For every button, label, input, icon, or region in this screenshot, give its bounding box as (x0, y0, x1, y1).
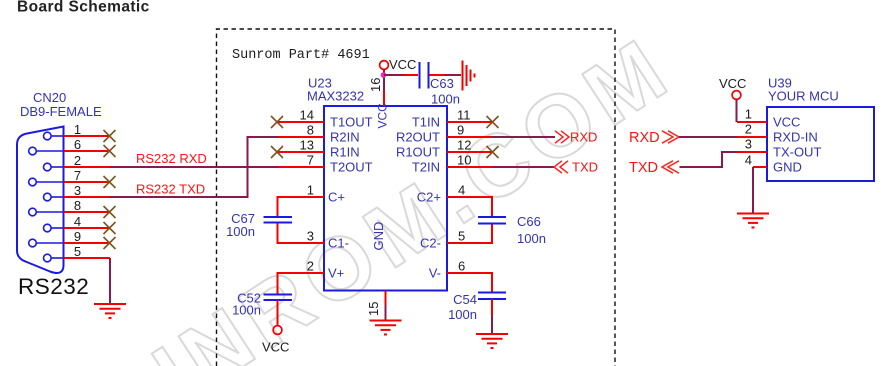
svg-text:DB9-FEMALE: DB9-FEMALE (20, 104, 102, 119)
capacitor C52 plates (264, 295, 293, 301)
pin 4 (753, 166, 767, 168)
svg-text:100n: 100n (232, 303, 261, 318)
svg-text:8: 8 (74, 198, 81, 213)
svg-text:16: 16 (368, 78, 383, 92)
svg-text:4: 4 (74, 214, 81, 229)
U23 pin numbers left (300, 108, 314, 274)
svg-text:1: 1 (307, 183, 314, 198)
svg-text:TXD: TXD (572, 160, 598, 175)
svg-text:T1IN: T1IN (412, 115, 440, 130)
svg-text:RS232: RS232 (18, 274, 89, 299)
port <<TXD (554, 161, 568, 173)
svg-text:100n: 100n (448, 307, 477, 322)
no-connect X on U23 pin 14 (271, 116, 283, 128)
pin 8 (278, 136, 324, 138)
U39 body (767, 107, 874, 181)
wire U23 pin15 to ground (385, 305, 387, 320)
svg-text:100n: 100n (226, 224, 255, 239)
svg-text:14: 14 (300, 108, 314, 123)
pin 1 circle (44, 132, 52, 140)
pin 16 stub (383, 91, 385, 106)
svg-text:C63: C63 (430, 76, 454, 91)
svg-text:C66: C66 (517, 214, 541, 229)
no-connect X on CN20 pin 4 (104, 222, 116, 234)
wire VCC circle down to pin16 (383, 70, 385, 92)
svg-text:VCC: VCC (262, 340, 289, 355)
pin 5 circle (44, 254, 52, 262)
svg-text:100n: 100n (431, 92, 460, 107)
pin 10 (447, 166, 492, 168)
wire VCC to U39 pin1 (736, 99, 738, 122)
svg-text:100n: 100n (517, 231, 546, 246)
pin 4 circle (44, 224, 52, 232)
pin 12 (447, 151, 492, 153)
svg-text:TX-OUT: TX-OUT (773, 145, 821, 160)
pin 5 + C66 bottom lead (447, 224, 492, 244)
pin 9 stub (64, 242, 111, 244)
svg-text:C54: C54 (453, 292, 477, 307)
wire DB9 pin5 to ground (109, 258, 111, 304)
svg-text:9: 9 (74, 229, 81, 244)
svg-text:T2OUT: T2OUT (330, 160, 373, 175)
svg-text:13: 13 (300, 138, 314, 153)
pin 2 (737, 136, 767, 138)
pin 3 + C67 bottom lead (278, 223, 325, 243)
svg-text:RS232 TXD: RS232 TXD (136, 182, 205, 197)
svg-text:R1IN: R1IN (330, 145, 360, 160)
U23 pin numbers right (457, 108, 471, 274)
svg-text:V-: V- (429, 266, 441, 281)
svg-text:12: 12 (457, 138, 471, 153)
U39 pin names (773, 115, 821, 175)
svg-text:4: 4 (458, 183, 465, 198)
no-connect X on CN20 pin 8 (104, 206, 116, 218)
pin 1 stub (64, 135, 111, 137)
wire RS232 RXD: DB9 pin2 to U23 pin7 (110, 166, 278, 168)
U23 pin names right (396, 115, 441, 281)
no-connect X on CN20 pin 1 (104, 130, 116, 142)
svg-text:C1-: C1- (328, 236, 349, 251)
wire RS232 TXD: DB9 pin3 up to U23 pin8 (110, 137, 278, 197)
capacitor C67 plates (264, 217, 293, 223)
pin 9 circle (29, 239, 37, 247)
pin 1 + C67 top lead (278, 197, 325, 216)
pin 6 + C54 lead (447, 273, 492, 292)
no-connect X on U23 pin 12 (487, 146, 499, 158)
pin 3 (737, 151, 767, 153)
svg-text:2: 2 (74, 153, 81, 168)
svg-text:1: 1 (74, 122, 81, 137)
ground under U39 pin4 (737, 214, 769, 228)
svg-text:C2-: C2- (420, 236, 441, 251)
pin 2 + C52 lead (278, 273, 325, 294)
pin 5 stub (64, 257, 111, 259)
capacitor C54 plates (478, 293, 506, 300)
U23 pins (red stubs) (278, 91, 493, 305)
svg-text:8: 8 (307, 123, 314, 138)
pin 9 (447, 136, 492, 138)
svg-text:R2OUT: R2OUT (396, 130, 440, 145)
svg-text:RXD-IN: RXD-IN (773, 130, 818, 145)
ground under DB9 pin5 (94, 304, 126, 318)
svg-text:VCC: VCC (773, 115, 800, 130)
wire U23 pin9 to RXD port (492, 136, 555, 138)
wire junction to C63 (384, 74, 403, 76)
wire TXD port to U39 pin3 (680, 152, 738, 167)
wire RXD port to U39 pin2 (679, 136, 737, 138)
pin 3 stub (64, 196, 111, 198)
pin 11 (447, 121, 492, 123)
wire U39 pin4 to ground (752, 167, 754, 213)
pin 3 circle (44, 193, 52, 201)
U23 pin names left (328, 115, 373, 281)
dashed module boundary box (217, 29, 616, 366)
ground under U23 pin15 (370, 321, 402, 335)
pin 7 (278, 166, 324, 168)
pin 6 circle (29, 147, 37, 155)
svg-text:RS232 RXD: RS232 RXD (136, 151, 207, 166)
pin 14 (278, 121, 324, 123)
svg-text:6: 6 (458, 259, 465, 274)
pin 13 (278, 151, 324, 153)
U39 pins red stubs (737, 122, 767, 167)
pin 2 circle (44, 163, 52, 171)
svg-text:R1OUT: R1OUT (396, 145, 440, 160)
rotated ground right of C63 (463, 61, 475, 91)
svg-text:T2IN: T2IN (412, 160, 440, 175)
pin 1 (737, 121, 767, 123)
U39 pin numbers (745, 107, 752, 168)
connector CN20 DB9 body outline (17, 127, 64, 274)
svg-text:Board Schematic: Board Schematic (17, 0, 150, 16)
svg-text:3: 3 (307, 229, 314, 244)
no-connect X on CN20 pin 6 (104, 145, 116, 157)
pin 15 stub (385, 291, 387, 306)
svg-text:3: 3 (745, 137, 752, 152)
svg-text:5: 5 (458, 229, 465, 244)
svg-text:3: 3 (74, 183, 81, 198)
svg-text:11: 11 (457, 108, 471, 123)
svg-text:7: 7 (307, 153, 314, 168)
watermark SUNROM.COM (47, 17, 689, 366)
svg-text:Sunrom Part# 4691: Sunrom Part# 4691 (232, 48, 370, 63)
svg-text:V+: V+ (328, 266, 344, 281)
wire C52 to VCC circle (277, 300, 279, 326)
port >>RXD (555, 131, 569, 143)
no-connect X on U23 pin 11 (487, 116, 499, 128)
junction dot (381, 72, 387, 78)
pin 8 stub (64, 211, 111, 213)
svg-text:YOUR MCU: YOUR MCU (768, 89, 839, 104)
svg-text:6: 6 (74, 137, 81, 152)
wire C63 to rotated ground (430, 74, 446, 76)
CN20 red pin stubs (64, 136, 111, 258)
svg-text:MAX3232: MAX3232 (307, 89, 364, 104)
wire U23 pin10 to TXD port (492, 166, 554, 168)
svg-text:9: 9 (457, 123, 464, 138)
svg-text:2: 2 (307, 259, 314, 274)
U23 chip body (324, 106, 447, 291)
pin 7 stub (64, 181, 111, 183)
svg-text:R2IN: R2IN (330, 130, 360, 145)
svg-text:10: 10 (457, 153, 471, 168)
pin 7 circle (29, 178, 37, 186)
svg-text:C+: C+ (328, 190, 345, 205)
svg-text:C2+: C2+ (417, 190, 441, 205)
pin 6 stub (64, 150, 111, 152)
wire C54 to ground (491, 299, 493, 315)
svg-text:GND: GND (371, 222, 386, 251)
pin 8 circle (29, 208, 37, 216)
capacitor C66 plates (478, 217, 506, 224)
CN20 pin circles and inner stubs (29, 132, 64, 262)
pin 2 stub (64, 166, 111, 168)
VCC power symbol below C52 (273, 326, 282, 335)
svg-text:7: 7 (74, 168, 81, 183)
svg-text:TXD: TXD (629, 160, 658, 176)
svg-text:2: 2 (745, 122, 752, 137)
svg-text:RXD: RXD (629, 130, 660, 146)
svg-text:CN20: CN20 (33, 90, 66, 105)
svg-text:VCC: VCC (389, 57, 416, 72)
svg-text:1: 1 (745, 107, 752, 122)
capacitor C63 plates (420, 62, 429, 89)
svg-text:5: 5 (74, 244, 81, 259)
no-connect X on CN20 pin 7 (104, 176, 116, 188)
svg-text:15: 15 (366, 302, 381, 316)
svg-text:GND: GND (773, 160, 802, 175)
svg-text:4: 4 (745, 153, 752, 168)
no-connect X on U23 pin 13 (271, 146, 283, 158)
no-connect X on CN20 pin 9 (104, 237, 116, 249)
VCC power symbol above U23 (380, 61, 389, 70)
svg-text:T1OUT: T1OUT (330, 115, 373, 130)
svg-text:VCC: VCC (376, 103, 390, 129)
pin 4 stub (64, 227, 111, 229)
svg-text:RXD: RXD (570, 130, 597, 145)
pin 4 + C66 top lead (447, 197, 492, 216)
svg-text:VCC: VCC (719, 76, 746, 91)
ground under C54 (476, 334, 508, 348)
